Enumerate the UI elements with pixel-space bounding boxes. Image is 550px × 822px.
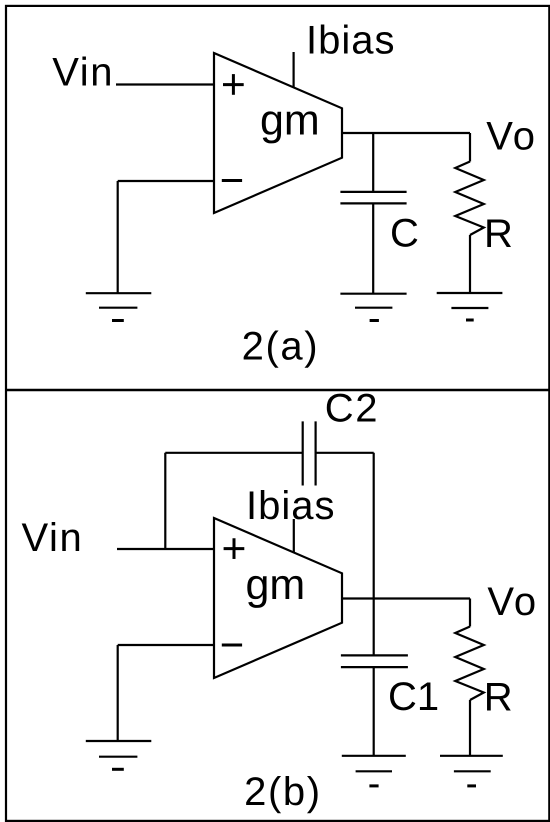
wire inverting input to ground branch (2a) <box>118 180 215 182</box>
svg-text:gm: gm <box>246 561 306 609</box>
wire Vin to non-inverting input (2b) <box>117 548 215 550</box>
wire Ibias lead into op-amp top (2b) <box>293 519 295 552</box>
op-amp U2 gm OTA body (2b) <box>214 518 342 678</box>
svg-text:2(a): 2(a) <box>242 325 320 369</box>
wire resistor R to ground (2a) <box>469 235 471 293</box>
resistor R zigzag (2b) <box>455 627 484 701</box>
ground symbol under R (2a) <box>437 293 503 320</box>
ground symbol under C1 (2b) <box>342 756 406 786</box>
svg-text:C: C <box>390 212 419 256</box>
ground symbol left (2b) <box>86 741 152 769</box>
wire inverting input to ground branch (2b) <box>118 644 215 646</box>
wire output down to resistor R (2b) <box>469 599 471 627</box>
capacitor C1 plates (2b) <box>341 655 408 667</box>
svg-text:Vin: Vin <box>22 516 84 560</box>
ground symbol under C (2a) <box>340 294 406 321</box>
frame divider between panels <box>6 389 549 392</box>
svg-text:R: R <box>484 212 513 256</box>
pin + non-inverting input marker (2a) <box>223 74 244 95</box>
ground symbol under R (2b) <box>440 756 503 786</box>
svg-text:R: R <box>484 676 513 720</box>
resistor R zigzag (2a) <box>455 162 484 236</box>
svg-text:Ibias: Ibias <box>246 484 336 528</box>
pin - inverting input marker (2b) <box>222 644 242 647</box>
wire output down to capacitor C (2a) <box>372 133 374 192</box>
wire vertical down to ground (2b) <box>117 645 119 741</box>
wire feedback right vertical down to C1 (2b) <box>373 453 375 656</box>
capacitor C plates (2a) <box>340 192 406 204</box>
pin + non-inverting input marker (2b) <box>224 538 245 559</box>
ground symbol left (2a) <box>86 293 152 320</box>
svg-text:Vin: Vin <box>52 51 114 95</box>
wire output down to resistor R (2a) <box>469 133 471 162</box>
svg-text:Vo: Vo <box>487 580 538 624</box>
op-amp U1 gm OTA body (2a) <box>214 53 342 213</box>
svg-text:C1: C1 <box>388 675 439 719</box>
wire Vin to non-inverting input (2a) <box>116 83 215 85</box>
capacitor C2 plates (2b) <box>303 421 316 485</box>
wire capacitor C1 to ground (2b) <box>373 667 375 756</box>
wire feedback top left to C2 (2b) <box>165 452 302 454</box>
svg-text:Vo: Vo <box>486 114 537 158</box>
wire Ibias lead into op-amp top (2a) <box>293 52 295 87</box>
wire feedback tap up from Vin node (2b) <box>164 453 166 549</box>
wire vertical down to ground (2a) <box>117 181 119 293</box>
wire C2 to output branch (2b) <box>316 452 374 454</box>
wire output node Vo (2b) <box>342 597 470 599</box>
svg-text:2(b): 2(b) <box>244 770 322 814</box>
svg-text:Ibias: Ibias <box>306 19 396 63</box>
wire resistor R to ground (2b) <box>469 700 471 756</box>
svg-text:gm: gm <box>260 96 320 144</box>
wire capacitor C to ground (2a) <box>372 203 374 293</box>
svg-text:C2: C2 <box>325 386 379 430</box>
pin - inverting input marker (2a) <box>222 179 242 182</box>
wire output node Vo (2a) <box>342 132 470 134</box>
